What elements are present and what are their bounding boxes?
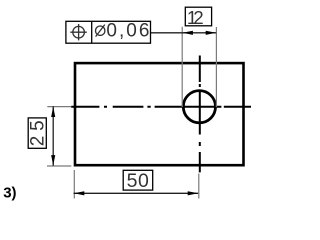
diameter symbol bbox=[96, 25, 105, 37]
extension line 12 left bbox=[181, 27, 183, 107]
part outline rectangle bbox=[75, 63, 244, 165]
svg-text:50: 50 bbox=[127, 170, 150, 192]
extension line 12 right bbox=[215, 27, 217, 107]
dimension box 25 bbox=[28, 118, 46, 148]
feature control frame divider bbox=[91, 21, 93, 43]
dimension line 50 bbox=[74, 192, 199, 194]
dimension box 12 bbox=[185, 7, 211, 26]
arrowhead 50 right bbox=[188, 191, 199, 195]
vertical centerline bbox=[199, 56, 201, 173]
arrowhead 25 up bbox=[51, 107, 55, 118]
arrowhead 50 left bbox=[74, 191, 85, 195]
extension line 50 left bbox=[73, 170, 75, 199]
feature control frame box bbox=[66, 21, 151, 43]
dimension box 50 bbox=[123, 170, 153, 190]
svg-text:0,06: 0,06 bbox=[106, 21, 149, 42]
extension line 25 bottom bbox=[47, 165, 71, 167]
arrowhead 12 left bbox=[182, 31, 193, 35]
position tolerance symbol bbox=[70, 24, 87, 40]
svg-text:3): 3) bbox=[3, 184, 16, 201]
extension line 50 right bbox=[198, 174, 200, 199]
arrowhead 12 right bbox=[206, 31, 217, 35]
svg-text:12: 12 bbox=[187, 7, 204, 28]
arrowhead 25 down bbox=[51, 155, 55, 166]
horizontal centerline bbox=[71, 106, 251, 108]
hole circle bbox=[183, 91, 215, 123]
extension line 25 top bbox=[47, 106, 71, 108]
dimension line 25 bbox=[52, 106, 54, 166]
leader + dimension line 12 bbox=[151, 32, 216, 34]
